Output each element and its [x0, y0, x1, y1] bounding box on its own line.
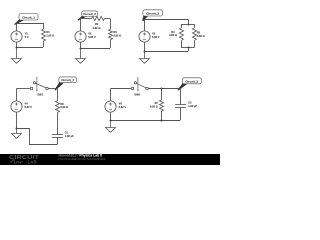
- wire R3 bottom lead: [110, 40, 112, 48]
- svg-text:R1: R1: [46, 30, 50, 34]
- svg-text:3.82 Ω: 3.82 Ω: [197, 34, 205, 38]
- wire R5 bottom lead: [194, 40, 196, 47]
- svg-text:3.82 Ω: 3.82 Ω: [169, 33, 177, 37]
- wire V5 bottom lead: [110, 112, 112, 120]
- wire C1 top: [17, 23, 44, 25]
- svg-text:Circuit_5: Circuit_5: [185, 79, 198, 83]
- svg-text:V3: V3: [152, 32, 156, 36]
- wire C2 top right: [105, 18, 111, 20]
- svg-text:V2: V2: [88, 32, 92, 36]
- svg-text:5.62 V: 5.62 V: [25, 105, 33, 109]
- ground C1: [12, 48, 22, 64]
- svg-text:R7: R7: [155, 101, 159, 105]
- wire C1 bottom: [17, 47, 44, 49]
- junction C5 R7 bottom: [161, 120, 163, 122]
- junction C1 ground node: [16, 47, 18, 49]
- wire C2 top left: [80, 18, 92, 20]
- wire R7 bottom lead: [161, 111, 163, 120]
- ground C5: [106, 121, 116, 133]
- svg-text:Circuit_3: Circuit_3: [146, 12, 159, 16]
- ground C4: [12, 129, 22, 139]
- wire C4 top left: [16, 88, 30, 90]
- wire V4 bottom lead: [16, 112, 18, 128]
- voltage source V4: [11, 101, 22, 112]
- svg-text:5.62 V: 5.62 V: [119, 105, 127, 109]
- wire C2 cap top lead: [180, 89, 182, 105]
- wire R6 top lead: [57, 89, 59, 101]
- junction C3 ground node: [144, 51, 146, 53]
- wire C3 bottom rail: [145, 51, 188, 53]
- ground C3: [140, 52, 150, 64]
- voltage source V2: [75, 31, 86, 42]
- svg-text:R2: R2: [95, 22, 99, 26]
- wire C1 cap bottom lead: [57, 137, 59, 144]
- wire C3 bottom bridge: [181, 47, 195, 49]
- svg-text:Circuit_2: Circuit_2: [83, 12, 96, 16]
- svg-text:V1: V1: [25, 32, 29, 36]
- junction C3 top split: [188, 24, 190, 26]
- svg-text:6.82 Ω: 6.82 Ω: [60, 105, 68, 109]
- wire V2 top lead: [80, 19, 82, 31]
- wire R1 bottom lead: [43, 41, 45, 47]
- svg-text:5 V: 5 V: [25, 35, 29, 39]
- capacitor C2: [175, 105, 186, 108]
- wire C5 top left: [110, 88, 130, 90]
- wire R7 top lead: [161, 89, 163, 100]
- svg-text:3.62 Ω: 3.62 Ω: [113, 34, 121, 38]
- node label Circuit_2: [77, 11, 97, 21]
- wire C4 top right: [48, 88, 57, 90]
- logo CircuitLab: [9, 155, 40, 164]
- wire R6 to C1 cap: [57, 112, 59, 134]
- switch SW2: [131, 77, 148, 92]
- junction C5 ground node: [110, 120, 112, 122]
- node label Circuit_3: [142, 10, 162, 21]
- wire R5 top lead: [194, 24, 196, 28]
- voltage source V1: [11, 31, 22, 42]
- node label Circuit_5: [177, 78, 201, 91]
- svg-text:R5: R5: [197, 31, 201, 35]
- wire C3 drop to rail: [188, 47, 190, 51]
- ground C2: [76, 49, 86, 64]
- junction C3 bottom split: [188, 47, 190, 49]
- svg-text:1.62 Ω: 1.62 Ω: [46, 34, 54, 38]
- junction C2 ground node: [80, 48, 82, 50]
- wire C2 bottom: [80, 48, 110, 50]
- svg-text:Circuit_1: Circuit_1: [22, 16, 35, 20]
- wire V2 bottom lead: [80, 42, 82, 48]
- wire V5 top lead: [110, 89, 112, 101]
- wire C3 drop to split: [188, 19, 190, 24]
- wire V1 top lead: [16, 23, 18, 31]
- svg-text:V4: V4: [25, 102, 29, 106]
- svg-text:R4: R4: [171, 30, 175, 34]
- svg-text:SW2: SW2: [134, 92, 140, 96]
- svg-text:SW1: SW1: [37, 92, 43, 96]
- resistor R7: [160, 100, 164, 111]
- wire V3 top lead: [144, 19, 146, 31]
- wire C5 bottom rail: [110, 120, 180, 122]
- svg-text:5.62 V: 5.62 V: [152, 35, 160, 39]
- voltage source V5: [105, 101, 116, 112]
- capacitor C1: [52, 135, 63, 138]
- resistor R4: [180, 28, 184, 40]
- wire C2 cap bottom lead: [180, 107, 182, 120]
- wire C4 bottom rail: [17, 129, 58, 145]
- wire R3 top lead: [110, 19, 112, 30]
- wire R1 top lead: [43, 23, 45, 29]
- switch SW1: [30, 77, 48, 92]
- svg-text:5.62 V: 5.62 V: [88, 35, 96, 39]
- resistor R3: [109, 29, 113, 39]
- resistor R5: [193, 28, 197, 40]
- wire C3 top: [145, 19, 188, 21]
- svg-text:6.82 Ω: 6.82 Ω: [150, 105, 158, 109]
- svg-text:V5: V5: [119, 102, 123, 106]
- footer bar: [0, 154, 220, 165]
- junction C4 ground node: [16, 128, 18, 130]
- svg-text:1.82 µF: 1.82 µF: [65, 134, 74, 138]
- svg-text:2.82 Ω: 2.82 Ω: [93, 26, 101, 30]
- resistor R1: [42, 29, 46, 41]
- wire V3 bottom lead: [144, 42, 146, 51]
- wire V4 top lead: [16, 89, 18, 101]
- svg-text:C2: C2: [188, 100, 192, 104]
- svg-text:Circuit_4: Circuit_4: [61, 78, 74, 82]
- wire R4 top lead: [181, 24, 183, 28]
- voltage source V3: [139, 31, 150, 42]
- svg-text:R3: R3: [113, 30, 117, 34]
- svg-text:1.82 µF: 1.82 µF: [188, 104, 197, 108]
- wire C3 top bridge: [181, 24, 195, 26]
- resistor R6: [56, 101, 60, 113]
- wire R4 bottom lead: [181, 40, 183, 47]
- wire C5 top right: [148, 88, 180, 90]
- svg-text:R6: R6: [60, 102, 64, 106]
- node label Circuit_1: [14, 14, 38, 25]
- resistor R2: [92, 16, 105, 20]
- svg-text:C1: C1: [65, 131, 69, 135]
- node label Circuit_4: [54, 77, 76, 91]
- junction C5 R7 top: [161, 88, 163, 90]
- wire V1 bottom lead: [16, 42, 18, 47]
- svg-text:http://circuitlab.com/c/7e4vba: http://circuitlab.com/c/7e4vba33h9p6: [59, 157, 106, 161]
- svg-text:LAB: LAB: [28, 160, 37, 165]
